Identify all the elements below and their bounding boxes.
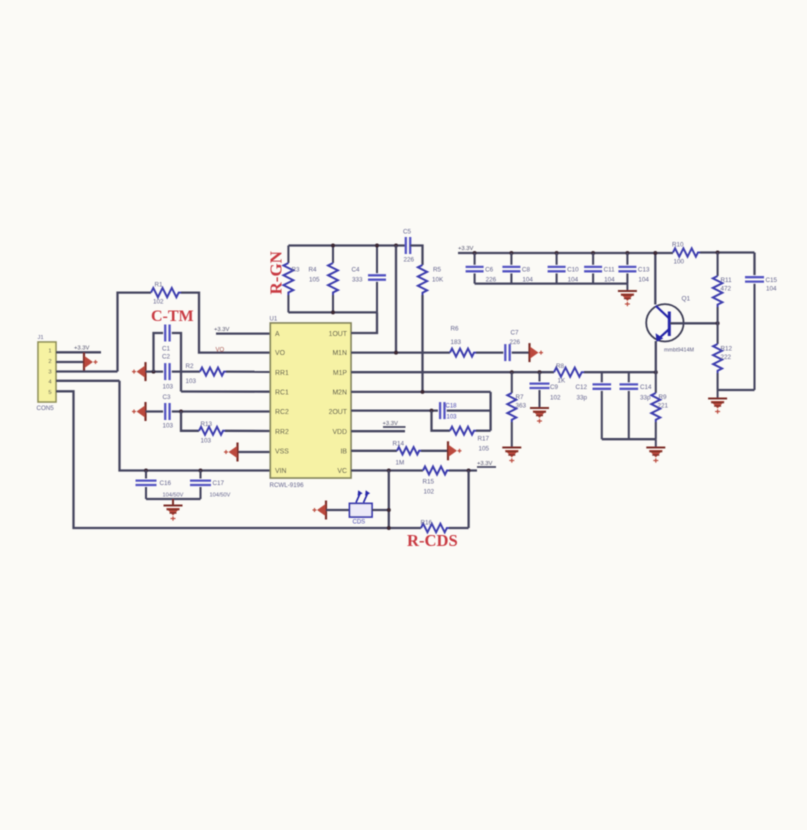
- node RGN junctions: [331, 244, 398, 315]
- svg-text:RR1: RR1: [275, 370, 289, 377]
- ground arrow at CDS: [313, 501, 327, 520]
- wire C18 right: [447, 409, 491, 411]
- svg-text:1M: 1M: [396, 460, 405, 467]
- svg-text:M1P: M1P: [333, 370, 348, 377]
- ground arrow at IB: [448, 441, 462, 460]
- power +3.3V at VDD: [383, 421, 406, 427]
- resistor R12: [713, 323, 732, 390]
- node RC2-R13 junction: [179, 410, 183, 414]
- resistor R15: [423, 467, 450, 496]
- svg-text:C10: C10: [567, 267, 579, 274]
- wire CON5 pin2 to ground: [56, 361, 84, 363]
- svg-text:R9: R9: [659, 394, 668, 401]
- svg-text:R15: R15: [423, 479, 435, 486]
- label R-GN: [267, 250, 286, 294]
- wire C1 bracket right: [172, 333, 181, 392]
- wire VDD pin: [351, 430, 405, 432]
- svg-text:10K: 10K: [432, 277, 444, 284]
- ground at cap rail: [618, 284, 637, 307]
- ground arrow at CON5 pin2: [84, 353, 98, 372]
- wire R14 to ground arrow: [421, 450, 448, 452]
- capacitor C11: [584, 251, 615, 284]
- wire R5 to M2N: [421, 295, 423, 392]
- wire C3 to RC2 pin: [172, 410, 270, 412]
- svg-text:R8: R8: [556, 363, 565, 370]
- svg-text:C5: C5: [403, 229, 412, 236]
- wire M2N pin: [351, 391, 491, 393]
- ground at Q1: [708, 390, 727, 414]
- svg-text:VIN: VIN: [275, 468, 287, 475]
- label C3 value: [163, 394, 174, 430]
- capacitor C9: [530, 372, 562, 407]
- resistor R3: [283, 246, 300, 313]
- wire collector: [653, 251, 657, 305]
- wire +3.3V node down to R16: [467, 471, 469, 529]
- capacitor C2: [165, 363, 169, 380]
- svg-text:C12: C12: [576, 384, 588, 391]
- svg-text:R11: R11: [721, 277, 733, 284]
- wire M1P pin to R8: [351, 371, 554, 373]
- wire R8 to emitter node: [584, 371, 656, 373]
- svg-text:102: 102: [550, 395, 561, 402]
- net label VO: [216, 347, 225, 353]
- svg-text:105: 105: [309, 277, 320, 284]
- capacitor C3: [165, 403, 169, 420]
- capacitor C18: [440, 402, 457, 420]
- svg-text:103: 103: [163, 423, 174, 430]
- svg-text:C17: C17: [213, 480, 225, 487]
- ground at R7: [502, 448, 521, 463]
- node VC junction: [387, 469, 391, 473]
- svg-text:+3.3V: +3.3V: [458, 246, 473, 252]
- resistor R1: [151, 282, 181, 306]
- capacitor C14: [620, 372, 653, 439]
- capacitor C17: [190, 471, 231, 500]
- resistor R10: [672, 242, 700, 266]
- svg-text:1OUT: 1OUT: [329, 331, 348, 338]
- svg-text:222: 222: [721, 354, 732, 361]
- svg-text:M2N: M2N: [332, 390, 347, 397]
- svg-text:104: 104: [638, 277, 649, 284]
- svg-text:R13: R13: [201, 421, 213, 428]
- wire CON5 pin5: [56, 391, 421, 528]
- svg-text:105: 105: [479, 446, 490, 453]
- svg-text:C16: C16: [160, 480, 172, 487]
- wire C2 to R2: [172, 370, 200, 372]
- wire ground to CDS: [326, 509, 350, 511]
- svg-text:mmbt9414M: mmbt9414M: [664, 348, 694, 354]
- wire R15 to +3.3V: [449, 469, 477, 471]
- svg-text:C7: C7: [511, 330, 520, 337]
- wire C1 bracket left: [154, 333, 164, 372]
- ground arrow at C3: [132, 402, 146, 421]
- node M2N junction: [421, 390, 425, 394]
- svg-text:R3: R3: [292, 267, 301, 274]
- wire CDS to VC node: [372, 509, 389, 511]
- wire +3.3V rail: [458, 252, 673, 254]
- svg-text:R-GN: R-GN: [267, 250, 286, 294]
- svg-text:VC: VC: [337, 468, 347, 475]
- svg-text:C14: C14: [640, 384, 652, 391]
- svg-text:VSS: VSS: [275, 448, 289, 455]
- op-amp IC U1 RCWL-9196: [270, 317, 352, 490]
- resistor R6: [450, 326, 476, 357]
- svg-text:33p: 33p: [640, 395, 651, 402]
- ground arrow at C7: [530, 343, 544, 362]
- wire pin4 bus down to VIN: [120, 381, 271, 471]
- svg-text:RC2: RC2: [275, 409, 289, 416]
- svg-text:U1: U1: [270, 317, 278, 323]
- wire ground to C2: [146, 370, 164, 372]
- capacitor C10: [548, 251, 580, 284]
- svg-text:472: 472: [721, 286, 732, 293]
- wire node pin3 bus up to R1: [118, 293, 152, 372]
- svg-text:R10: R10: [672, 242, 684, 249]
- svg-text:R7: R7: [516, 394, 525, 401]
- svg-text:Q1: Q1: [682, 296, 691, 303]
- wire C5 to R5: [410, 246, 422, 266]
- connector J1 CON5 body: [37, 335, 57, 412]
- svg-text:1K: 1K: [558, 378, 567, 385]
- svg-text:VDD: VDD: [332, 429, 347, 436]
- svg-text:+3.3V: +3.3V: [477, 461, 492, 467]
- svg-text:C18: C18: [446, 404, 458, 410]
- svg-text:226: 226: [404, 257, 415, 264]
- wire M1N pin to R6: [351, 351, 450, 353]
- svg-text:+3.3V: +3.3V: [214, 327, 229, 333]
- svg-text:C11: C11: [604, 267, 616, 274]
- svg-text:CON5: CON5: [37, 405, 55, 412]
- capacitor C5: [403, 229, 415, 264]
- wire 1OUT to RGN: [351, 312, 377, 333]
- capacitor C4: [352, 246, 387, 313]
- ground at R9: [646, 439, 665, 463]
- power +3.3V label at CON5: [74, 346, 89, 352]
- svg-text:102: 102: [424, 489, 435, 496]
- capacitor C16: [136, 471, 184, 500]
- svg-text:+3.3V: +3.3V: [383, 421, 398, 427]
- svg-text:VO: VO: [216, 347, 225, 353]
- wire C16-C17 bottom: [146, 498, 201, 500]
- wire base: [670, 322, 718, 324]
- wire R16 right: [449, 527, 469, 529]
- svg-text:VO: VO: [275, 350, 286, 357]
- label C1 C2 values: [162, 346, 174, 391]
- node emitter junction: [654, 370, 658, 374]
- wire C7 to ground: [512, 351, 530, 353]
- wire R1 to VO pin: [181, 293, 270, 353]
- capacitor C12: [576, 372, 612, 439]
- svg-text:C15: C15: [766, 277, 778, 284]
- wire cap rail bottom: [475, 282, 628, 284]
- resistor R11: [713, 253, 732, 324]
- wire C18-R17 bracket left: [432, 411, 451, 431]
- photoresistor CDS: [350, 490, 373, 525]
- capacitor C13: [618, 251, 650, 284]
- svg-text:103: 103: [447, 415, 458, 421]
- svg-text:R17: R17: [478, 436, 490, 443]
- svg-text:2OUT: 2OUT: [329, 409, 348, 416]
- wire 2OUT pin: [351, 409, 438, 411]
- svg-text:R2: R2: [186, 363, 195, 370]
- svg-text:1: 1: [48, 349, 51, 355]
- resistor R8: [554, 363, 584, 385]
- wire CON5 pin4: [56, 380, 120, 382]
- svg-text:102: 102: [153, 299, 164, 306]
- wire IB pin to R14: [351, 450, 397, 452]
- capacitor C7: [505, 330, 520, 362]
- resistor R13: [199, 421, 225, 445]
- wire VSS pin: [238, 451, 271, 453]
- node C17 junction: [199, 469, 203, 473]
- wire RGN top rail: [288, 244, 405, 246]
- capacitor C15: [745, 253, 778, 391]
- node C9 junction: [538, 370, 542, 374]
- wire CON5 pin1 to +3.3V: [56, 351, 101, 353]
- node C16 junction: [144, 469, 148, 473]
- resistor R2: [186, 363, 227, 385]
- svg-text:363: 363: [516, 403, 527, 410]
- svg-text:C9: C9: [550, 384, 559, 391]
- label C-TM: [151, 308, 194, 325]
- svg-text:R12: R12: [721, 346, 733, 353]
- power +3.3V rail label: [458, 246, 473, 252]
- svg-text:+3.3V: +3.3V: [74, 346, 89, 352]
- ground arrow at VSS: [224, 443, 238, 462]
- node M1N junction: [394, 351, 398, 355]
- resistor R16: [421, 520, 449, 533]
- svg-text:M1N: M1N: [332, 350, 347, 357]
- wire RGN bottom rail: [288, 311, 377, 313]
- resistor R4: [309, 246, 338, 313]
- resistor R7: [507, 372, 526, 447]
- ground at C16-C17: [164, 499, 183, 521]
- resistor R17: [450, 427, 490, 453]
- svg-text:33p: 33p: [577, 395, 588, 402]
- wire C15 bottom to ground: [718, 389, 755, 391]
- svg-text:104/50V: 104/50V: [163, 493, 184, 499]
- svg-text:103: 103: [163, 384, 174, 391]
- svg-text:RC1: RC1: [275, 390, 289, 397]
- resistor R9: [651, 372, 668, 439]
- svg-text:5: 5: [48, 390, 51, 396]
- svg-text:R4: R4: [309, 267, 318, 274]
- svg-text:226: 226: [510, 339, 521, 346]
- svg-text:CDS: CDS: [353, 520, 366, 526]
- svg-text:104: 104: [766, 286, 777, 293]
- svg-text:R16: R16: [421, 520, 433, 527]
- svg-text:A: A: [275, 331, 280, 338]
- wire MIN vertical: [395, 246, 397, 353]
- svg-text:C2: C2: [162, 354, 171, 361]
- wire ground to C3: [146, 410, 164, 412]
- svg-text:103: 103: [201, 438, 212, 445]
- node 2OUT junction: [430, 409, 434, 413]
- ground arrow at C2: [132, 362, 146, 381]
- capacitor C8: [502, 251, 533, 284]
- svg-text:RCWL-9196: RCWL-9196: [270, 482, 305, 489]
- wire bottom cap rail: [602, 438, 656, 440]
- node base junction: [716, 321, 720, 325]
- wire R17 right: [476, 430, 491, 432]
- svg-text:RR2: RR2: [275, 429, 289, 436]
- svg-text:C3: C3: [163, 394, 172, 401]
- svg-text:IB: IB: [340, 448, 347, 455]
- ground at C9: [530, 408, 549, 423]
- wire M2N right vertical: [489, 392, 491, 431]
- svg-text:R14: R14: [393, 441, 405, 448]
- svg-text:221: 221: [658, 403, 669, 410]
- node C1-C2 junction: [152, 370, 156, 374]
- svg-text:C6: C6: [485, 267, 494, 274]
- node R16 top junction: [467, 469, 471, 473]
- wire RC2 node down to R13: [181, 412, 199, 431]
- svg-text:J1: J1: [38, 335, 44, 341]
- svg-text:C-TM: C-TM: [151, 308, 194, 325]
- power +3.3V at VC: [477, 461, 496, 467]
- svg-text:C13: C13: [638, 267, 650, 274]
- node R11 junction: [716, 251, 720, 255]
- resistor R5: [418, 265, 444, 295]
- wire +3.3V to A pin: [216, 332, 270, 334]
- capacitor C1: [165, 325, 169, 342]
- svg-text:C4: C4: [352, 267, 361, 274]
- transistor Q1: [646, 296, 694, 354]
- node CDS junction: [387, 508, 391, 530]
- svg-text:R5: R5: [433, 267, 442, 274]
- power +3.3V label at A pin: [214, 327, 229, 333]
- svg-text:R6: R6: [451, 326, 460, 333]
- svg-text:100: 100: [674, 259, 685, 266]
- svg-text:R-CDS: R-CDS: [407, 531, 458, 550]
- wire RC1 pin: [181, 390, 270, 393]
- wire VC node down: [388, 471, 390, 529]
- svg-text:103: 103: [186, 378, 197, 385]
- wire CON5 pin3: [56, 370, 118, 372]
- svg-text:R1: R1: [155, 282, 164, 289]
- label R-CDS: [407, 531, 458, 550]
- wire VC pin to R15: [351, 469, 423, 471]
- svg-text:183: 183: [451, 339, 462, 346]
- svg-text:2: 2: [48, 359, 51, 365]
- wire R13 to RR2 pin: [225, 430, 270, 433]
- svg-text:333: 333: [352, 277, 363, 284]
- node R7 junction: [510, 370, 514, 374]
- svg-text:104/50V: 104/50V: [210, 493, 231, 499]
- svg-text:C1: C1: [162, 346, 171, 353]
- capacitor C6: [466, 251, 497, 284]
- wire R2 to RR1 pin: [226, 370, 270, 372]
- wire emitter: [655, 341, 657, 372]
- resistor R14: [393, 441, 422, 467]
- wire R6 to C7: [476, 351, 503, 353]
- svg-text:C8: C8: [522, 267, 531, 274]
- svg-text:3: 3: [48, 369, 51, 375]
- wire R10 to C15: [700, 251, 755, 253]
